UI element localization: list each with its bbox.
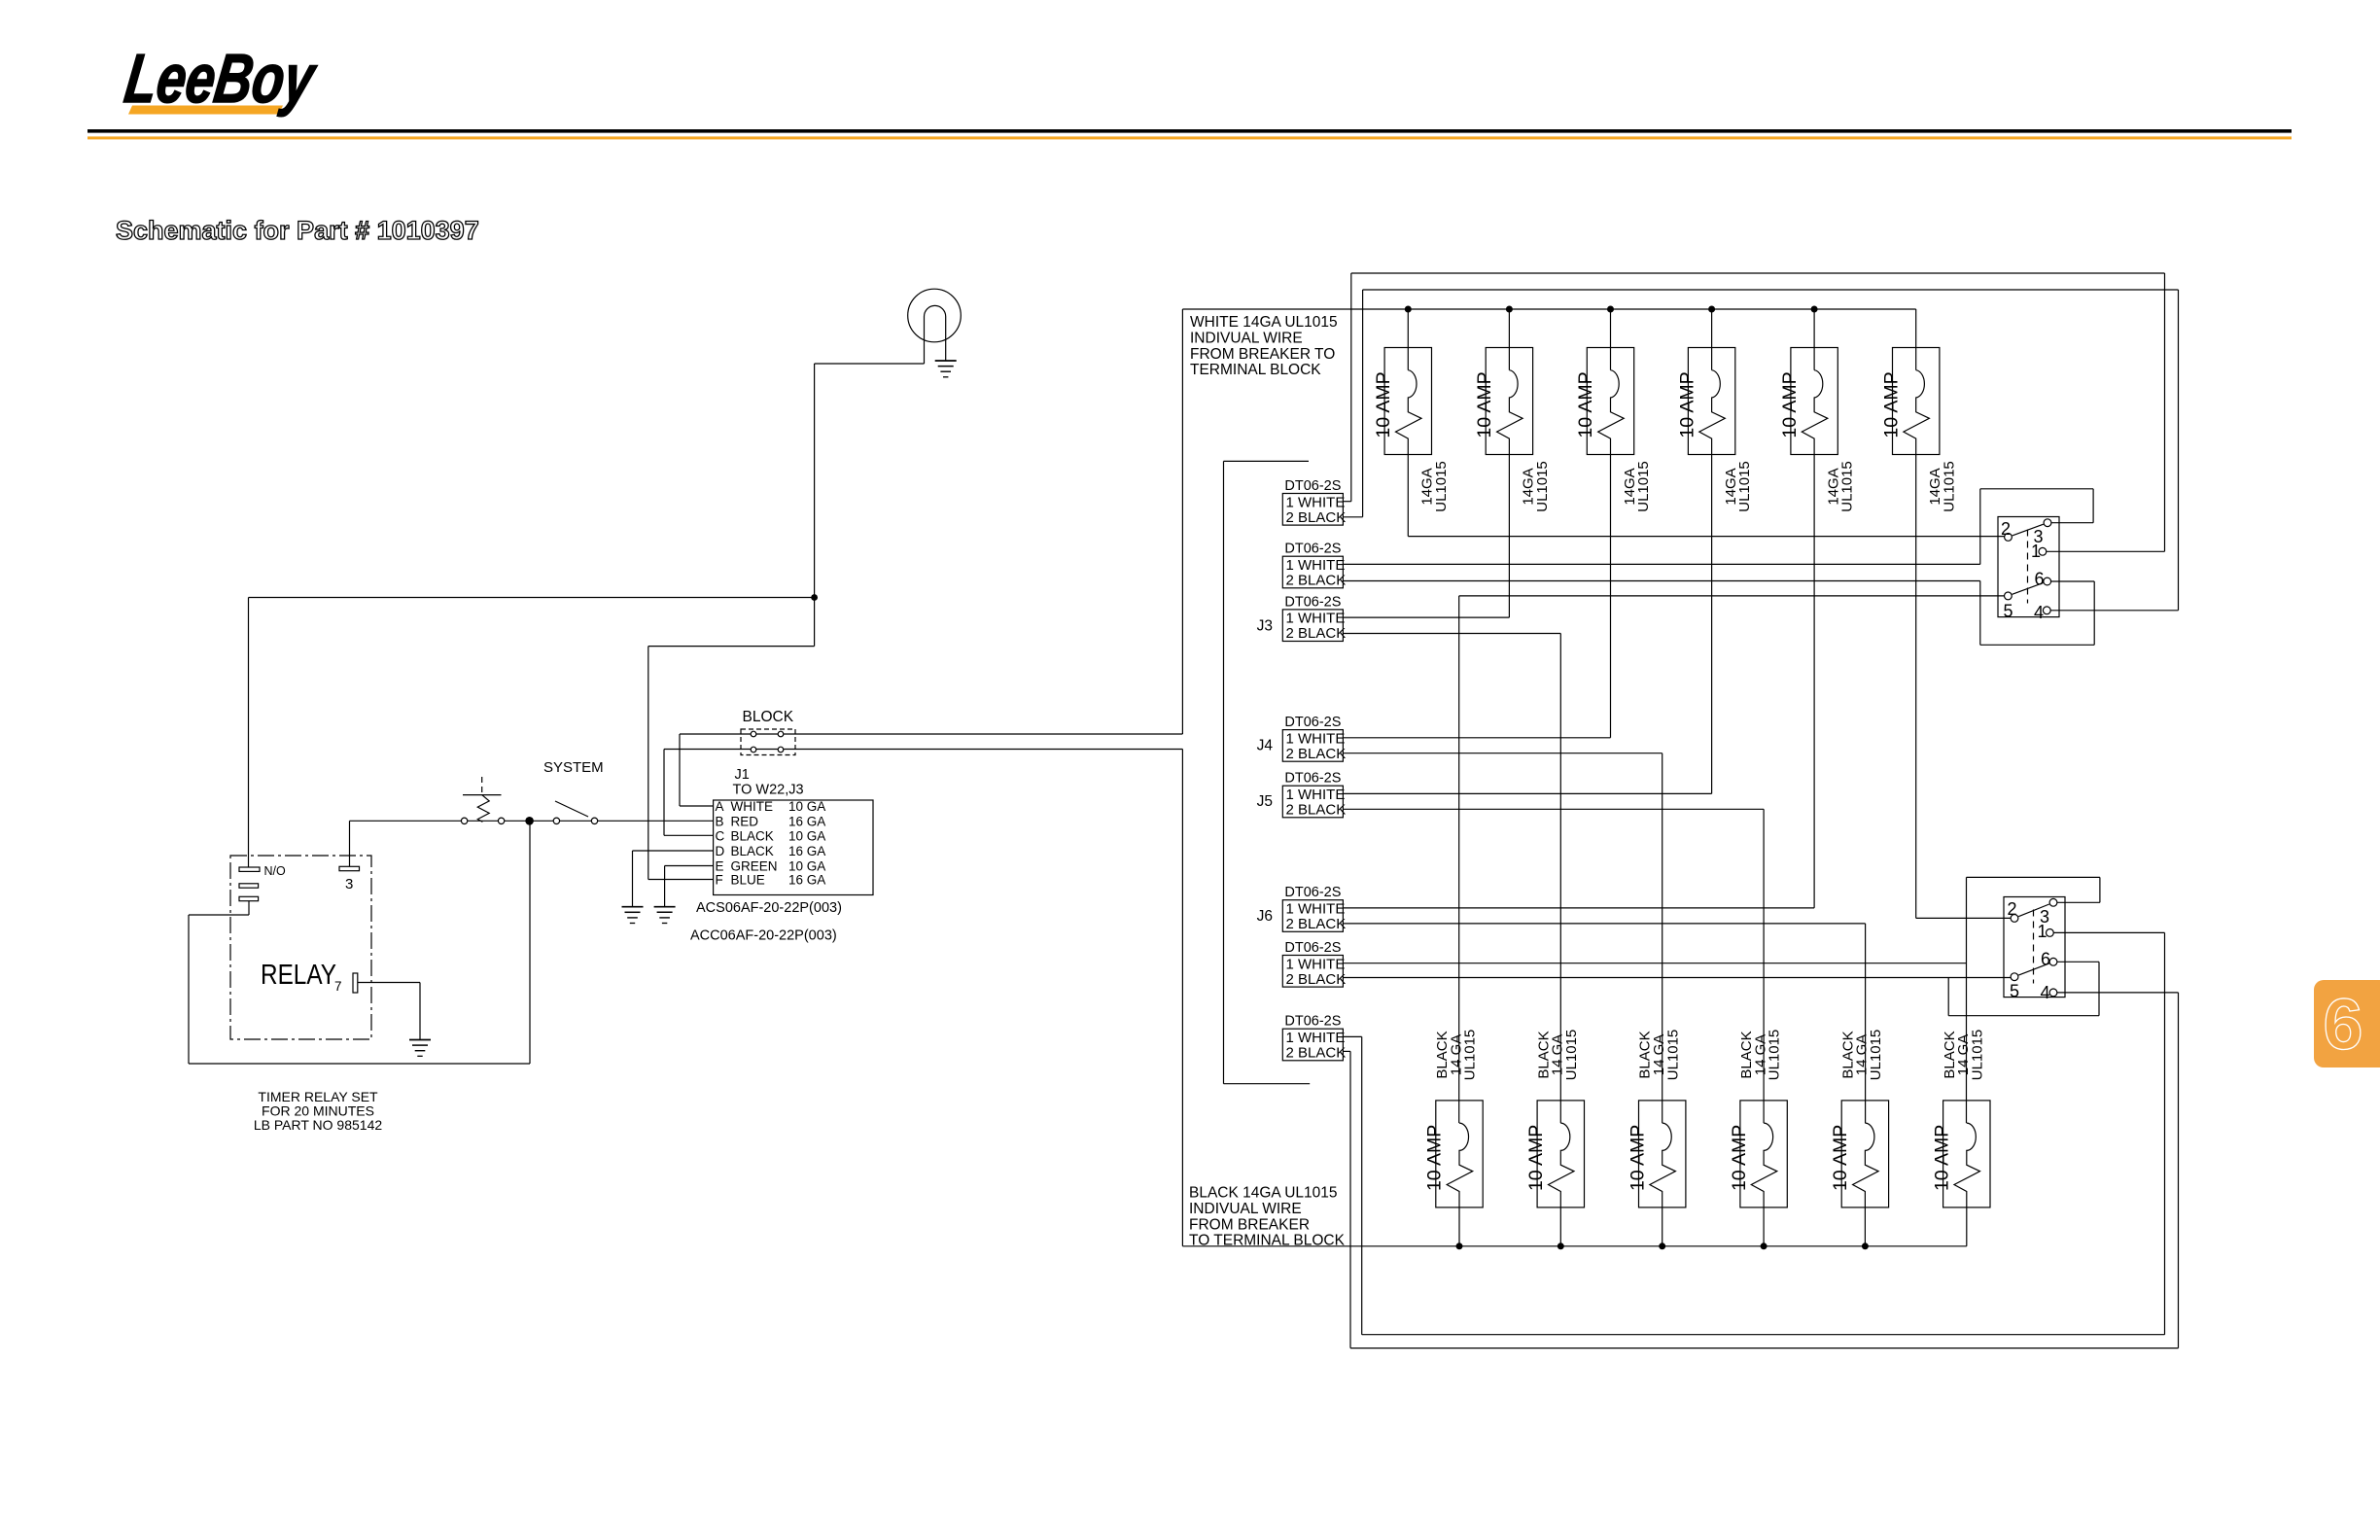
svg-text:B: B xyxy=(716,814,724,828)
svg-text:DT06-2S: DT06-2S xyxy=(1284,1014,1341,1030)
svg-text:10 AMP: 10 AMP xyxy=(1627,1125,1648,1191)
svg-text:10 AMP: 10 AMP xyxy=(1575,371,1596,437)
svg-text:2 BLACK: 2 BLACK xyxy=(1286,573,1347,589)
svg-text:DT06-2S: DT06-2S xyxy=(1284,940,1341,956)
svg-text:16 GA: 16 GA xyxy=(788,844,825,858)
svg-text:ACC06AF-20-22P(003): ACC06AF-20-22P(003) xyxy=(690,928,837,944)
svg-text:UL1015: UL1015 xyxy=(1941,461,1957,512)
svg-text:2 BLACK: 2 BLACK xyxy=(1286,802,1347,819)
svg-text:1: 1 xyxy=(2038,922,2047,941)
svg-text:DT06-2S: DT06-2S xyxy=(1284,594,1341,610)
svg-text:J6: J6 xyxy=(1257,908,1273,925)
svg-text:2 BLACK: 2 BLACK xyxy=(1286,509,1347,526)
svg-text:3: 3 xyxy=(345,876,353,892)
svg-text:J4: J4 xyxy=(1257,738,1274,754)
svg-text:RELAY: RELAY xyxy=(261,960,336,991)
svg-text:J3: J3 xyxy=(1257,618,1273,635)
svg-text:FROM BREAKER: FROM BREAKER xyxy=(1189,1216,1310,1233)
svg-text:E: E xyxy=(716,859,724,874)
svg-text:ACS06AF-20-22P(003): ACS06AF-20-22P(003) xyxy=(696,900,842,916)
svg-text:1 WHITE: 1 WHITE xyxy=(1286,787,1346,803)
svg-text:UL1015: UL1015 xyxy=(1736,461,1753,512)
svg-text:10 AMP: 10 AMP xyxy=(1525,1125,1547,1191)
svg-text:LB PART NO 985142: LB PART NO 985142 xyxy=(254,1117,383,1133)
svg-text:WHITE: WHITE xyxy=(731,799,774,814)
svg-text:1 WHITE: 1 WHITE xyxy=(1286,901,1346,918)
svg-text:UL1015: UL1015 xyxy=(1563,1030,1580,1081)
svg-text:C: C xyxy=(716,828,725,843)
svg-text:1 WHITE: 1 WHITE xyxy=(1286,557,1346,574)
svg-text:TO TERMINAL BLOCK: TO TERMINAL BLOCK xyxy=(1189,1233,1346,1249)
svg-text:TO W22,J3: TO W22,J3 xyxy=(733,783,804,798)
svg-text:6: 6 xyxy=(2323,984,2362,1065)
svg-text:6: 6 xyxy=(2035,570,2045,589)
svg-text:N/O: N/O xyxy=(264,864,287,878)
svg-text:UL1015: UL1015 xyxy=(1534,461,1551,512)
svg-text:UL1015: UL1015 xyxy=(1635,461,1652,512)
svg-text:10 AMP: 10 AMP xyxy=(1830,1125,1851,1191)
svg-text:DT06-2S: DT06-2S xyxy=(1284,542,1341,557)
svg-text:UL1015: UL1015 xyxy=(1462,1030,1479,1081)
svg-text:10 GA: 10 GA xyxy=(788,799,825,814)
svg-text:6: 6 xyxy=(2041,950,2050,969)
svg-text:2 BLACK: 2 BLACK xyxy=(1286,916,1347,932)
svg-text:J1: J1 xyxy=(735,767,750,783)
svg-text:16 GA: 16 GA xyxy=(788,873,825,888)
svg-text:5: 5 xyxy=(2004,602,2013,621)
svg-text:10 GA: 10 GA xyxy=(788,859,825,874)
svg-text:BLUE: BLUE xyxy=(731,873,765,888)
svg-text:DT06-2S: DT06-2S xyxy=(1284,478,1341,494)
svg-text:LeeBoy: LeeBoy xyxy=(121,40,322,118)
svg-text:BLACK 14GA UL1015: BLACK 14GA UL1015 xyxy=(1189,1185,1338,1202)
svg-text:DT06-2S: DT06-2S xyxy=(1284,715,1341,730)
svg-text:1 WHITE: 1 WHITE xyxy=(1286,730,1346,747)
svg-text:INDIVUAL WIRE: INDIVUAL WIRE xyxy=(1190,330,1303,346)
svg-text:BLOCK: BLOCK xyxy=(743,709,794,725)
svg-text:UL1015: UL1015 xyxy=(1664,1030,1681,1081)
svg-text:10 AMP: 10 AMP xyxy=(1729,1125,1750,1191)
svg-text:UL1015: UL1015 xyxy=(1969,1030,1985,1081)
svg-text:10 AMP: 10 AMP xyxy=(1676,371,1697,437)
svg-text:GREEN: GREEN xyxy=(731,859,778,874)
svg-text:UL1015: UL1015 xyxy=(1433,461,1450,512)
svg-text:BLACK: BLACK xyxy=(731,828,774,843)
svg-text:2 BLACK: 2 BLACK xyxy=(1286,625,1347,642)
svg-text:BLACK: BLACK xyxy=(731,844,774,858)
svg-text:10 AMP: 10 AMP xyxy=(1424,1125,1446,1191)
svg-text:10 GA: 10 GA xyxy=(788,828,825,843)
svg-text:16 GA: 16 GA xyxy=(788,814,825,828)
svg-text:UL1015: UL1015 xyxy=(1767,1030,1783,1081)
svg-text:2 BLACK: 2 BLACK xyxy=(1286,971,1347,988)
svg-text:TERMINAL BLOCK: TERMINAL BLOCK xyxy=(1190,362,1321,378)
svg-text:UL1015: UL1015 xyxy=(1868,1030,1884,1081)
svg-text:D: D xyxy=(716,844,725,858)
svg-text:2: 2 xyxy=(2008,899,2017,919)
svg-text:UL1015: UL1015 xyxy=(1839,461,1856,512)
svg-text:SYSTEM: SYSTEM xyxy=(543,759,604,776)
svg-text:RED: RED xyxy=(731,814,759,828)
svg-text:10 AMP: 10 AMP xyxy=(1779,371,1801,437)
svg-text:DT06-2S: DT06-2S xyxy=(1284,771,1341,787)
svg-text:1 WHITE: 1 WHITE xyxy=(1286,956,1346,972)
svg-text:1 WHITE: 1 WHITE xyxy=(1286,494,1346,510)
svg-text:1 WHITE: 1 WHITE xyxy=(1286,611,1346,627)
svg-text:1 WHITE: 1 WHITE xyxy=(1286,1030,1346,1046)
svg-text:Schematic for Part # 1010397: Schematic for Part # 1010397 xyxy=(116,216,479,245)
svg-text:2 BLACK: 2 BLACK xyxy=(1286,746,1347,762)
svg-text:1: 1 xyxy=(2031,542,2041,561)
svg-text:10 AMP: 10 AMP xyxy=(1373,371,1394,437)
svg-text:INDIVUAL WIRE: INDIVUAL WIRE xyxy=(1189,1201,1302,1217)
svg-text:10 AMP: 10 AMP xyxy=(1932,1125,1953,1191)
svg-text:WHITE 14GA UL1015: WHITE 14GA UL1015 xyxy=(1190,314,1338,331)
svg-text:DT06-2S: DT06-2S xyxy=(1284,885,1341,900)
svg-text:FROM BREAKER TO: FROM BREAKER TO xyxy=(1190,346,1335,363)
svg-text:4: 4 xyxy=(2041,983,2050,1002)
svg-text:10 AMP: 10 AMP xyxy=(1474,371,1495,437)
svg-text:2 BLACK: 2 BLACK xyxy=(1286,1045,1347,1062)
svg-text:2: 2 xyxy=(2001,519,2011,539)
svg-text:F: F xyxy=(716,873,723,888)
svg-text:4: 4 xyxy=(2034,603,2044,622)
svg-text:5: 5 xyxy=(2010,982,2019,1001)
svg-text:10 AMP: 10 AMP xyxy=(1880,371,1902,437)
svg-text:J5: J5 xyxy=(1257,793,1273,810)
svg-text:A: A xyxy=(716,799,724,814)
